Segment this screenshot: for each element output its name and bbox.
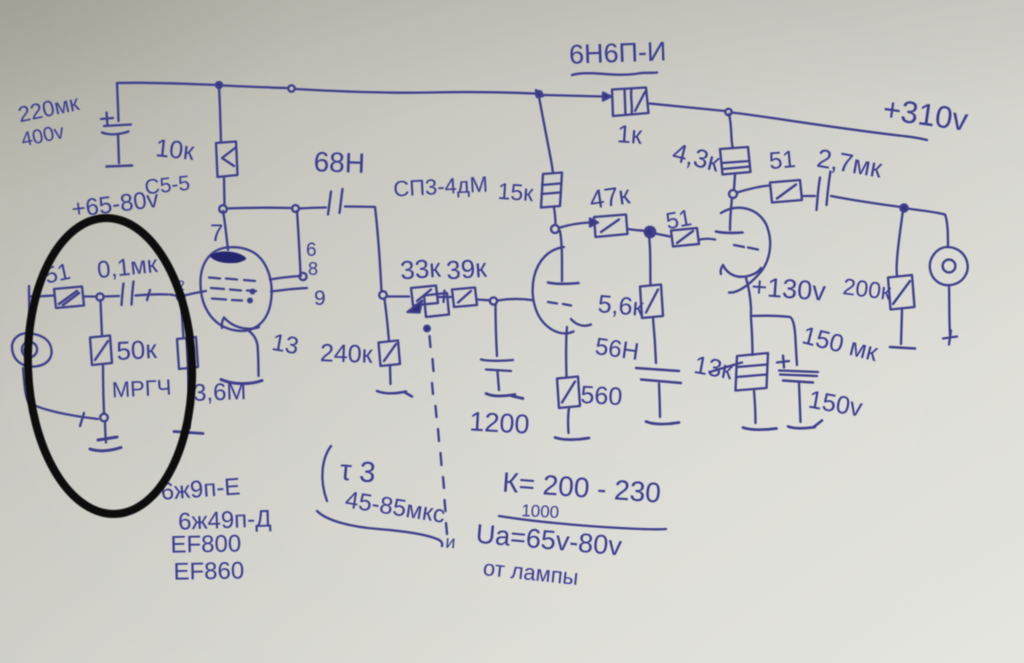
node K (tube3 anode): [729, 190, 737, 198]
capacitor 1200 top plate: [481, 360, 513, 361]
svg-text:EF800: EF800: [170, 530, 241, 558]
svg-text:51: 51: [768, 146, 797, 175]
svg-text:1к: 1к: [616, 120, 644, 150]
wire junction J to 51 grid stopper: [655, 234, 670, 237]
tube1 grid dashes row1: [209, 278, 255, 282]
wire 3,6М to ground: [188, 369, 190, 428]
capacitor 68Н: [328, 189, 343, 215]
capacitor 220мк top plate: [104, 125, 131, 127]
capacitor 150мк bottom plate: [783, 381, 813, 383]
wire node E right (68Н row): [227, 206, 292, 209]
resistor 240к: [379, 341, 401, 367]
node I: [551, 225, 559, 233]
dot below 33к: [424, 326, 430, 332]
junction J: [645, 228, 653, 236]
wire 51 to node N: [85, 295, 97, 297]
node F: [292, 205, 299, 212]
wire 10к to node E: [223, 178, 226, 206]
resistor 51 (tube3 grid): [671, 228, 699, 247]
wire 39к to node H: [478, 300, 491, 301]
node N: [96, 293, 103, 300]
wire rail corner down to 220мк: [117, 83, 119, 121]
svg-text:8: 8: [308, 259, 318, 279]
tick from 13к into box: [710, 363, 742, 373]
tube1 anode lead: [223, 211, 228, 250]
wire junction C to 1k: [544, 95, 603, 97]
wire node N down to 50к: [101, 300, 103, 336]
tube1 anode (filled): [211, 253, 245, 262]
wire node G down to 240к: [385, 299, 390, 341]
capacitor 56Н bottom plate: [641, 380, 681, 384]
tube1 cathode: [222, 318, 259, 329]
wire corner down to node G: [375, 207, 382, 291]
wire node I down to tube2 anode: [560, 231, 562, 261]
tick on shield wire: [80, 413, 84, 426]
svg-text:15к: 15к: [497, 178, 535, 206]
wire node L down to 200к: [897, 210, 903, 276]
svg-text:68Н: 68Н: [313, 146, 365, 179]
wire top rail left segment: [117, 83, 217, 85]
junction dot A: [216, 82, 222, 88]
wire cathode branch to 150мк: [751, 316, 797, 365]
wire node G right to 33к: [387, 295, 409, 297]
wire node H down to 1200: [496, 304, 498, 356]
tube3 envelope: [721, 208, 770, 293]
resistor 47к: [594, 215, 628, 238]
svg-text:7: 7: [210, 220, 223, 247]
svg-text:47к: 47к: [588, 179, 633, 214]
resistor 51 (input): [54, 287, 84, 309]
tube1 grid dashes row2: [211, 288, 256, 291]
svg-text:и: и: [445, 532, 457, 553]
wire 240к to ground: [389, 367, 392, 385]
svg-text:33к: 33к: [399, 253, 442, 286]
resistor 15к: [541, 173, 562, 208]
node D after 1к: [725, 109, 731, 115]
arrowhead into 47к: [590, 219, 598, 227]
capacitor 150мк lead: [799, 383, 801, 423]
wire stem to 51 input: [29, 296, 54, 297]
capacitor 56Н lead: [659, 384, 660, 418]
resistor 4,3к: [720, 147, 751, 175]
svg-text:560: 560: [580, 381, 623, 411]
output jack: [930, 247, 968, 285]
wire rail to right end: [732, 113, 927, 141]
capacitor 220мк plus sign: [101, 113, 113, 126]
resistor 5,6к: [640, 285, 663, 319]
node H: [490, 297, 497, 304]
wire node O down to 3,6М: [181, 299, 184, 338]
fraction line: [499, 516, 666, 529]
tube1 cathode lead: [246, 329, 259, 377]
svg-text:СП3-4дМ: СП3-4дМ: [393, 172, 489, 202]
capacitor 220мк bottom plate: [102, 132, 129, 135]
arrowhead into resistor 1к: [603, 93, 611, 101]
input jack: [12, 333, 52, 366]
input jack center dot: [25, 348, 30, 353]
junction C: [536, 90, 543, 97]
wire rail A to node B: [222, 86, 288, 89]
node G: [379, 291, 387, 299]
ground 1200: [486, 394, 523, 399]
svg-text:13: 13: [270, 329, 301, 360]
svg-text:1200: 1200: [469, 406, 531, 439]
capacitor 0,1мк: [122, 282, 134, 306]
wire node L to output jack: [907, 209, 948, 248]
ground 50к: [90, 437, 121, 451]
wire input jack shield to node P: [23, 368, 98, 419]
resistor 51 (output): [770, 180, 802, 203]
tube3 anode: [716, 232, 743, 233]
wire node F to capacitor 68Н: [299, 208, 326, 209]
node O: [177, 293, 184, 300]
capacitor 1200 bottom plate: [486, 370, 511, 372]
ground 13к: [743, 428, 777, 430]
ground 560: [555, 438, 589, 440]
resistor 33к (potentiometer СП3-4дМ): [411, 286, 438, 306]
wire 2,7мк to node L: [831, 196, 901, 207]
ground 56Н: [646, 422, 679, 425]
bracket for tau: [322, 446, 331, 501]
svg-text:240к: 240к: [319, 339, 374, 369]
svg-text:τ 3: τ 3: [339, 455, 377, 490]
node M: [299, 273, 306, 280]
wire node H to tube2 grid: [498, 299, 534, 301]
resistor 1к (6Н6П-И plate load): [612, 88, 649, 117]
wire 4,3к to node K: [734, 175, 735, 189]
tube3 anode lead: [730, 198, 732, 230]
wire node D down to 4,3к: [729, 114, 733, 147]
wire rail after 1к to +310v: [649, 104, 725, 112]
underline of 6Н6П-И: [572, 73, 657, 76]
wire 15к to node I: [554, 208, 556, 225]
wire node F down to node M: [297, 211, 301, 273]
wire 51 to tube3 grid: [700, 238, 715, 241]
wire input jack stem up: [29, 286, 30, 333]
resistor 560: [557, 377, 580, 409]
tube2 anode lead: [561, 261, 563, 281]
wire 51 to 2,7мк: [803, 195, 816, 197]
wire node K to resistor 51 output: [737, 186, 769, 193]
tube2 grid dashes: [548, 302, 571, 306]
end tick of output lead: [943, 331, 957, 345]
wire 47к to junction J: [628, 229, 645, 231]
wire junction A down to 10к: [219, 86, 221, 142]
tube2 envelope: [533, 247, 574, 333]
ground 200к: [890, 347, 915, 349]
wire junction J down to 5,6к: [649, 236, 651, 285]
svg-text:EF860: EF860: [173, 557, 244, 585]
dashed line from 33к wiper: [430, 336, 448, 534]
wire node P to ground: [105, 421, 106, 443]
svg-text:51: 51: [664, 204, 694, 234]
capacitor 56Н top plate: [636, 368, 679, 371]
wire node N to 0,1мк: [104, 295, 120, 298]
resistor 3,6М: [177, 337, 198, 369]
ground 3,6М: [174, 432, 203, 434]
resistor 50к: [90, 336, 112, 366]
ground 220мк: [107, 166, 133, 167]
wire 200к to ground: [901, 310, 902, 344]
svg-text:39к: 39к: [445, 253, 488, 286]
svg-text:50к: 50к: [116, 334, 158, 366]
wire 5,6к to 56Н: [653, 318, 656, 363]
node L: [900, 204, 907, 211]
tube3 grid dashes: [734, 245, 758, 250]
capacitor 150мк plus sign: [777, 356, 789, 368]
resistor 10к: [216, 142, 238, 178]
tube1 pin leads to node M: [270, 276, 301, 280]
tube1 grid dashes row3: [212, 299, 242, 301]
wire 560 to ground: [568, 408, 569, 433]
capacitor 150мк top plates: [779, 371, 818, 377]
svg-text:МРГЧ: МРГЧ: [111, 374, 172, 402]
wire rail node B to junction C: [295, 89, 535, 94]
capacitor 220мк lead: [118, 134, 119, 163]
capacitor 2,7мк: [817, 172, 831, 211]
svg-text:6: 6: [306, 240, 317, 261]
wire output jack down: [949, 286, 950, 336]
resistor 39к: [452, 288, 477, 308]
node P: [100, 414, 108, 422]
tube3 cathode lead: [746, 278, 751, 317]
ground tube1 cathode: [221, 380, 262, 384]
svg-text:6Н6П-И: 6Н6П-И: [569, 36, 667, 69]
node B: [288, 85, 294, 91]
wire cathode down to 13к: [751, 318, 753, 355]
tube3 cathode: [721, 265, 761, 277]
svg-text:6ж9п-Е: 6ж9п-Е: [160, 473, 241, 505]
wire junction C down to 15к: [539, 97, 553, 173]
wire node I right to 47к: [560, 223, 589, 228]
svg-text:10к: 10к: [154, 134, 197, 166]
wire node O to tube1 grid: [185, 291, 207, 296]
svg-text:3,6М: 3,6М: [193, 378, 247, 407]
ground 150мк: [788, 421, 822, 429]
resistor 13к: [736, 353, 769, 391]
underline curl of tau note: [317, 511, 442, 546]
resistor 200к: [888, 275, 915, 310]
svg-text:5,6к: 5,6к: [597, 290, 646, 322]
highlight ellipse: [23, 215, 197, 517]
wire 0,1мк to node O: [136, 290, 179, 300]
tube2 cathode: [571, 319, 591, 326]
svg-text:9: 9: [314, 287, 326, 310]
wire 13к to ground: [754, 391, 756, 423]
tube2 anode: [548, 283, 579, 284]
svg-text:+130v: +130v: [751, 271, 828, 306]
capacitor 1200 lead: [498, 372, 500, 391]
wire 68Н to corner: [345, 205, 375, 208]
node E (pin7 junction): [219, 205, 227, 213]
tube1 envelope: [200, 247, 271, 331]
wire 50к down to node P: [103, 366, 104, 414]
tick between 33к and 39к: [439, 291, 451, 303]
tube2 cathode lead: [566, 327, 567, 377]
ground 240к: [377, 391, 412, 397]
arrow of potentiometer 33к: [408, 301, 423, 313]
